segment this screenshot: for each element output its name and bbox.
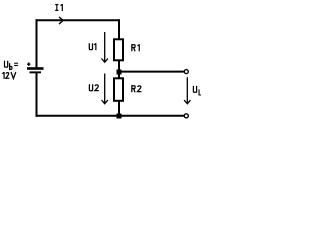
voltage arrow U2 <box>102 74 108 104</box>
load voltage arrow UL <box>184 77 190 104</box>
node: middle junction dot <box>117 70 122 75</box>
wire: middle junction to R2 <box>118 72 120 79</box>
voltage arrow U1 <box>102 32 108 62</box>
wire: left vertical upper (battery + to top wire) <box>36 19 38 67</box>
wire: top horizontal from battery to R1 branch <box>36 19 121 21</box>
battery V1 top plate (+) <box>27 67 44 70</box>
label R2 <box>132 86 142 92</box>
wire: bottom horizontal <box>36 115 185 117</box>
bottom output terminal <box>184 114 188 118</box>
current arrow I1 chevron on top wire <box>59 17 63 24</box>
node: bottom junction dot <box>117 114 122 119</box>
resistor R2 body <box>114 78 123 101</box>
resistor R1 body <box>114 39 123 60</box>
label 12V <box>2 72 16 79</box>
battery plus sign <box>27 63 30 66</box>
label R1 <box>132 44 140 51</box>
wire: R1 bottom to middle junction <box>118 60 120 74</box>
label I1 <box>55 4 63 11</box>
label U2 <box>89 84 98 90</box>
top output terminal <box>184 70 188 74</box>
wire: R2 bottom to bottom junction <box>118 101 120 117</box>
wire: right vertical upper (top wire to R1) <box>118 19 120 39</box>
wire: left vertical lower (battery - to bottom wire) <box>36 73 38 117</box>
battery V1 bottom plate (-) <box>30 71 42 73</box>
wire: middle horizontal to top terminal <box>119 71 184 73</box>
label Ub = <box>5 61 19 70</box>
label UL <box>193 86 201 95</box>
label U1 <box>89 43 96 50</box>
